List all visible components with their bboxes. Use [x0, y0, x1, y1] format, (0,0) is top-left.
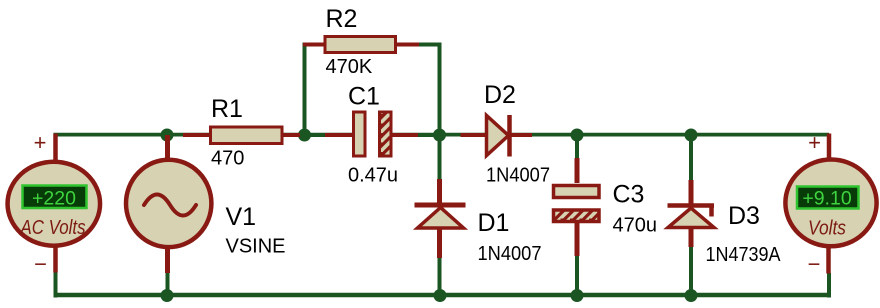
svg-text:R2: R2	[326, 5, 358, 33]
zener diode D3	[668, 180, 782, 266]
wire right meter bottom	[827, 273, 831, 298]
svg-text:D3: D3	[728, 202, 760, 230]
svg-text:470u: 470u	[613, 215, 658, 237]
svg-text:D2: D2	[484, 81, 516, 109]
wire C1 left	[305, 133, 327, 137]
svg-text:470K: 470K	[326, 56, 373, 78]
node D1 bottom	[434, 289, 447, 302]
svg-text:V1: V1	[226, 203, 257, 231]
wire C3 top	[575, 135, 579, 159]
capacitor C3	[554, 158, 658, 256]
wire C1 right	[418, 133, 440, 137]
svg-text:C1: C1	[348, 83, 380, 111]
svg-text:D1: D1	[478, 209, 510, 237]
svg-text:+: +	[34, 130, 47, 155]
node D3 bottom	[685, 289, 698, 302]
svg-text:1N4739A: 1N4739A	[706, 244, 782, 266]
wire V1 bottom	[166, 272, 170, 296]
node V1 bottom	[161, 289, 174, 302]
wire bottom rail	[54, 293, 830, 298]
wire left meter bottom	[54, 272, 58, 298]
svg-text:1N4007: 1N4007	[478, 243, 542, 265]
voltage source V1	[126, 135, 286, 273]
AC voltmeter	[8, 130, 101, 277]
node R1-R2-C1	[298, 129, 311, 142]
node V1 top	[161, 129, 174, 142]
svg-text:1N4007: 1N4007	[486, 165, 550, 187]
node C1-D1-D2	[433, 129, 446, 142]
wire D3 top	[689, 135, 693, 181]
svg-text:+9.10: +9.10	[802, 188, 851, 210]
svg-text:C3: C3	[613, 181, 645, 209]
resistor R2	[303, 5, 419, 78]
svg-text:+: +	[808, 130, 821, 155]
svg-text:R1: R1	[211, 95, 243, 123]
wire top rail	[54, 133, 830, 137]
wire D3 bottom	[689, 246, 693, 296]
svg-text:−: −	[808, 252, 821, 277]
wire R2 left branch	[303, 45, 307, 136]
svg-text:−: −	[34, 252, 47, 277]
resistor R1	[183, 95, 300, 170]
svg-text:+220: +220	[32, 188, 76, 210]
wire D1 top	[438, 135, 442, 180]
node D2-C3	[571, 129, 584, 142]
node C3 bottom	[571, 289, 584, 302]
wire D1 bottom	[438, 258, 442, 296]
wire C3 bottom	[575, 255, 579, 296]
svg-text:VSINE: VSINE	[226, 236, 286, 258]
svg-text:AC Volts: AC Volts	[20, 217, 86, 239]
diode D2	[461, 81, 551, 187]
diode D1	[415, 179, 542, 265]
DC voltmeter	[785, 130, 876, 277]
capacitor C1	[325, 83, 418, 187]
wire R2 right branch	[418, 45, 440, 136]
svg-text:Volts: Volts	[808, 218, 846, 240]
svg-text:470: 470	[211, 148, 244, 170]
svg-text:0.47u: 0.47u	[348, 165, 398, 187]
node C3-D3	[685, 129, 698, 142]
